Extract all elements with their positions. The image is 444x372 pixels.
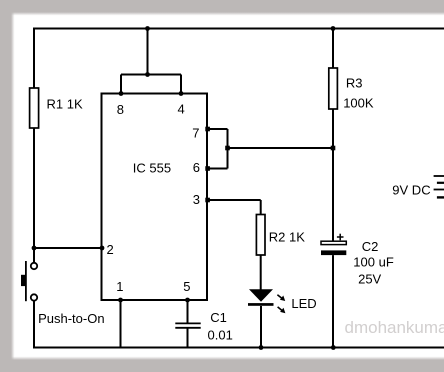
- wire: pin 3 stub: [207, 199, 261, 201]
- node: pin 8 at IC edge: [119, 91, 124, 96]
- node: C2 junction on bottom rail: [331, 345, 336, 350]
- wire: R2 to LED: [260, 255, 262, 290]
- node: pin 4 at IC edge: [179, 91, 184, 96]
- wire: pin 5 lead to C1: [187, 300, 189, 323]
- node: junction R3/C2: [331, 146, 336, 151]
- svg-text:100K: 100K: [343, 95, 374, 110]
- svg-text:R3: R3: [346, 75, 363, 90]
- switch S1 bottom terminal: [31, 294, 37, 300]
- wire: threshold wire to R3/C2 node: [228, 147, 334, 149]
- svg-text:IC 555: IC 555: [133, 160, 171, 175]
- battery B1: plate 2 short: [437, 182, 444, 184]
- node: junction R3 on top rail: [331, 26, 336, 31]
- node: junction on pin 8/4 bracket: [145, 72, 150, 77]
- svg-text:C2: C2: [362, 239, 379, 254]
- wire: left rail upper segment (top rail to R1): [33, 28, 35, 89]
- capacitor C1: bottom plate: [175, 327, 200, 329]
- wire: LED bottom lead: [260, 306, 262, 348]
- svg-text:R1 1K: R1 1K: [47, 97, 83, 112]
- wire: R3 bottom lead down to C2: [332, 109, 334, 241]
- capacitor C2: plus sign: [337, 234, 344, 241]
- wire: R3 top lead from top rail: [332, 29, 334, 69]
- svg-text:25V: 25V: [358, 271, 381, 286]
- node: pin 6 at IC edge: [205, 166, 210, 171]
- border: left gray strip: [0, 0, 11, 372]
- wire: top supply rail: [33, 28, 444, 30]
- wire: pin 2 wire (switch junction to IC pin 2): [34, 247, 102, 249]
- battery B1: plate 1 long: [434, 175, 444, 177]
- svg-text:3: 3: [193, 192, 200, 207]
- resistor R1: [30, 88, 39, 128]
- svg-text:8: 8: [117, 102, 124, 117]
- LED D1: cathode bar: [248, 303, 274, 306]
- svg-text:7: 7: [192, 125, 199, 140]
- svg-text:1: 1: [116, 279, 123, 294]
- node: pin 5 at IC edge: [185, 298, 190, 303]
- wire: pin 3 vertical to R2: [260, 200, 262, 215]
- node: junction left rail / pin2 wire: [32, 246, 37, 251]
- wire: C2 bottom lead: [332, 255, 334, 348]
- svg-text:5: 5: [183, 279, 190, 294]
- svg-text:dmohankumar: dmohankumar: [345, 318, 444, 337]
- LED D1: anode triangle: [249, 289, 273, 301]
- svg-text:C1: C1: [210, 310, 227, 325]
- wire: left rail middle segment (R1 to switch junction): [33, 128, 35, 248]
- svg-text:6: 6: [193, 160, 200, 175]
- border: top gray strip: [0, 0, 444, 12]
- capacitor C2: negative plate: [321, 250, 346, 255]
- switch S1 top terminal: [31, 263, 37, 269]
- switch S1 button cap: [21, 275, 25, 286]
- capacitor C2: positive plate: [321, 241, 346, 244]
- wire: VCC stub from top rail to pin 8/4 bracket: [147, 29, 149, 75]
- wire: pin 7 stub: [207, 128, 228, 130]
- resistor R3: [329, 68, 338, 109]
- LED D1: light arrow 2: [278, 307, 286, 313]
- node: pin 1 at IC edge: [118, 298, 123, 303]
- wire: pin 6 stub: [207, 168, 228, 170]
- border: bottom gray strip: [0, 357, 444, 361]
- svg-text:0.01: 0.01: [208, 327, 233, 342]
- capacitor C1: top plate: [175, 322, 200, 324]
- battery B1: plate 4 short: [437, 196, 444, 198]
- svg-text:R2 1K: R2 1K: [269, 230, 305, 245]
- wire: bottom ground rail: [33, 347, 444, 349]
- wire: switch top lead: [33, 248, 35, 263]
- node: pin 7 at IC edge: [205, 127, 210, 132]
- wire: pin 1 lead to ground rail: [120, 300, 122, 348]
- node: pin 2 at IC edge: [100, 246, 105, 251]
- node: LED junction on bottom rail: [259, 345, 264, 350]
- wire: pin 8 lead: [120, 75, 122, 94]
- wire: pin 8/4 bracket horizontal: [121, 74, 181, 76]
- svg-text:4: 4: [178, 102, 185, 117]
- node: junction on pin 6/7 bracket: [225, 146, 230, 151]
- svg-text:LED: LED: [291, 296, 316, 311]
- switch S1 contact bar: [25, 261, 27, 301]
- wire: pin 6/7 bracket vertical: [227, 129, 229, 169]
- resistor R2: [256, 215, 265, 256]
- node: junction on top rail: [145, 26, 150, 31]
- battery B1: plate 3 long: [434, 189, 444, 191]
- LED D1: light arrow 1: [277, 295, 285, 301]
- wire: C1 bottom lead: [187, 328, 189, 348]
- svg-text:2: 2: [107, 242, 114, 257]
- svg-text:9V DC: 9V DC: [392, 183, 430, 198]
- node: pin 3 at IC edge: [205, 198, 210, 203]
- svg-text:100 uF: 100 uF: [353, 255, 394, 270]
- wire: pin 4 lead: [180, 75, 182, 94]
- wire: switch bottom lead: [33, 301, 35, 349]
- op-amp U1: IC 555 body: [102, 94, 208, 301]
- svg-text:Push-to-On: Push-to-On: [38, 311, 104, 326]
